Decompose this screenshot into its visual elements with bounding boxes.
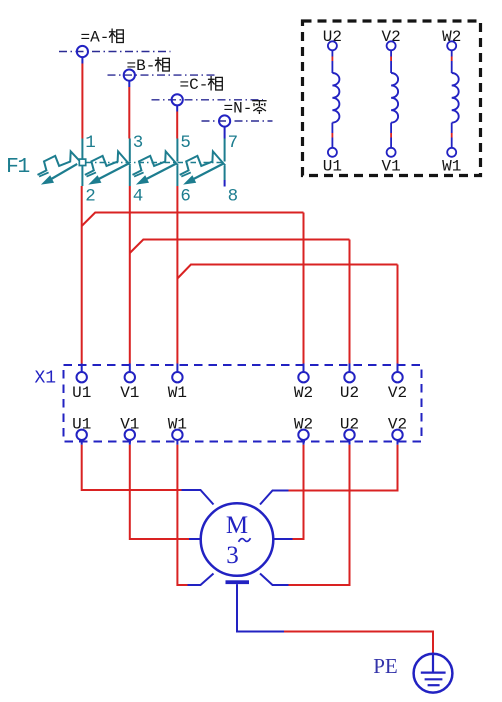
- wire motor frame to PE: [237, 584, 433, 654]
- terminal X1 V2 (top row): [388, 372, 407, 402]
- breaker pole contact 3-4: [85, 151, 131, 184]
- svg-text:V1: V1: [120, 384, 139, 402]
- motor lead lower-left: [188, 574, 214, 586]
- svg-text:W2: W2: [294, 384, 313, 402]
- svg-text:V1: V1: [120, 416, 139, 434]
- node =C phase line (dash-dot): [152, 99, 264, 101]
- breaker pole 3-4 terminal stubs: [129, 139, 131, 187]
- wire X1:W1 to motor terminal lower-left: [177, 445, 187, 585]
- svg-text:5: 5: [180, 133, 191, 153]
- svg-text:V1: V1: [381, 157, 400, 175]
- svg-text:2: 2: [85, 187, 96, 207]
- breaker mechanical link (dash-dot): [87, 162, 223, 164]
- svg-text:V2: V2: [381, 28, 400, 46]
- wire phase C down to breaker pole 3: [176, 105, 178, 138]
- wire pole4 output down to X1:V1: [129, 186, 131, 372]
- ground symbol PE: [414, 654, 453, 693]
- terminal circle =N: [219, 115, 230, 126]
- svg-text:3: 3: [133, 133, 144, 153]
- wire branch C-phase to X1:V2 (jog + bus): [177, 265, 397, 372]
- svg-text:U1: U1: [72, 384, 91, 402]
- svg-text:6: 6: [180, 187, 191, 207]
- terminal X1 U2 (bottom row): [340, 416, 359, 445]
- terminal circle =A: [77, 46, 88, 57]
- label =N-phase: [224, 100, 267, 118]
- svg-text:=A-: =A-: [81, 29, 110, 47]
- svg-text:W1: W1: [442, 157, 461, 175]
- terminal strip X1 dashed box: [64, 365, 422, 442]
- svg-text:U1: U1: [323, 157, 342, 175]
- svg-text:3: 3: [226, 542, 239, 569]
- breaker pole 1 pivot square: [79, 159, 85, 165]
- node =A phase line (dash-dot): [59, 51, 171, 53]
- node =N phase line (dash-dot): [202, 120, 273, 122]
- terminal X1 V1 (bottom row): [120, 416, 139, 445]
- svg-text:=B-: =B-: [127, 57, 156, 75]
- terminal X1 W1 (top row): [168, 372, 187, 402]
- winding U2-U1: [323, 28, 342, 176]
- terminal X1 U2 (top row): [340, 372, 359, 402]
- node =B phase line (dash-dot): [108, 74, 218, 76]
- wire X1:V2 to motor terminal upper-right: [289, 445, 398, 491]
- wire pole2 output down to X1:U1: [81, 186, 83, 372]
- motor frame terminal bar: [226, 580, 250, 584]
- winding W2-W1: [442, 28, 461, 176]
- motor lead middle-right: [273, 538, 293, 540]
- svg-text:=C-: =C-: [180, 76, 209, 94]
- breaker pole contact 1-2: [38, 151, 80, 184]
- terminal X1 V2 (bottom row): [388, 416, 407, 445]
- motor lead upper-left: [182, 490, 214, 505]
- breaker pole 1-2 terminal stubs: [81, 139, 83, 187]
- breaker pole contact 5-6: [133, 151, 179, 184]
- terminal X1 W1 (bottom row): [168, 416, 187, 445]
- svg-text:7: 7: [228, 133, 239, 153]
- wire X1:V1 to motor terminal middle-left: [130, 445, 189, 539]
- label =B-phase: [127, 57, 170, 75]
- motor windings dashed box: [303, 21, 481, 176]
- wire branch A-phase to X1:W2 (jog + bus): [82, 213, 304, 372]
- svg-text:U2: U2: [340, 384, 359, 402]
- wire X1:U2 to motor terminal lower-right: [289, 445, 350, 585]
- motor lead middle-left: [189, 538, 202, 540]
- svg-text:1: 1: [85, 133, 96, 153]
- terminal X1 U1 (top row): [72, 372, 91, 402]
- svg-text:F1: F1: [6, 155, 29, 179]
- label =C-phase: [180, 76, 223, 94]
- svg-text:W2: W2: [442, 28, 461, 46]
- winding V2-V1: [381, 28, 400, 176]
- motor M1 circle: [201, 503, 274, 576]
- wire X1:U1 to motor terminal upper-left: [82, 445, 182, 490]
- svg-text:V2: V2: [388, 416, 407, 434]
- svg-text:PE: PE: [373, 654, 398, 678]
- terminal circle =C: [172, 94, 183, 105]
- svg-text:U2: U2: [323, 28, 342, 46]
- svg-text:8: 8: [228, 187, 239, 207]
- label =A-phase: [81, 29, 124, 47]
- terminal X1 W2 (bottom row): [294, 416, 313, 445]
- breaker pole 7-8 terminal stubs: [224, 139, 226, 187]
- svg-text:4: 4: [133, 187, 144, 207]
- breaker pole 5-6 terminal stubs: [176, 139, 178, 187]
- svg-text:W1: W1: [168, 384, 187, 402]
- motor lead upper-right: [260, 491, 289, 505]
- terminal X1 W2 (top row): [294, 372, 313, 402]
- svg-text:W1: W1: [168, 416, 187, 434]
- svg-text:V2: V2: [388, 384, 407, 402]
- svg-text:X1: X1: [35, 369, 57, 389]
- svg-text:M: M: [226, 512, 248, 539]
- svg-text:=N-: =N-: [224, 100, 253, 118]
- wire X1:W2 to motor terminal middle-right: [293, 445, 304, 539]
- wire neutral N down to breaker pole 4: [224, 127, 226, 139]
- terminal circle =B: [124, 70, 135, 81]
- wire branch B-phase to X1:U2 (jog + bus): [130, 240, 350, 372]
- wire pole6 output down to X1:W1: [176, 186, 178, 372]
- svg-text:U2: U2: [340, 416, 359, 434]
- motor label ~: [239, 538, 251, 542]
- wire phase A down to breaker pole 1: [81, 57, 83, 138]
- terminal X1 V1 (top row): [120, 372, 139, 402]
- breaker pole contact 7-8: [180, 151, 226, 184]
- motor lead lower-right: [260, 574, 289, 586]
- svg-text:W2: W2: [294, 416, 313, 434]
- wire phase B down to breaker pole 2: [128, 81, 130, 139]
- svg-text:U1: U1: [72, 416, 91, 434]
- terminal X1 U1 (bottom row): [72, 416, 91, 445]
